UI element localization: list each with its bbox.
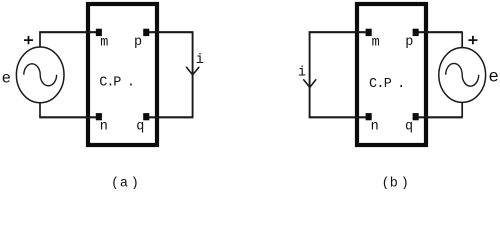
two-port network box U1 (C.P.) bbox=[88, 4, 157, 145]
wire: left corner to terminal m (b) bbox=[309, 31, 367, 33]
wire: E2 top riser bbox=[461, 32, 463, 48]
svg-text:C.P.: C.P. bbox=[369, 77, 405, 92]
wire: terminal p to right corner bbox=[149, 31, 194, 33]
wire: top left to terminal m bbox=[39, 31, 96, 33]
svg-text:p: p bbox=[405, 35, 413, 50]
svg-text:(a): (a) bbox=[111, 177, 139, 190]
terminal m (square, b) bbox=[366, 29, 372, 36]
svg-text:n: n bbox=[371, 120, 379, 135]
terminal q (square) bbox=[143, 113, 149, 120]
polarity plus of E2 bbox=[468, 36, 477, 44]
svg-text:e: e bbox=[488, 67, 499, 87]
current arrowhead i (b) bbox=[304, 80, 316, 88]
polarity plus of E1 bbox=[24, 36, 33, 44]
svg-text:m: m bbox=[372, 35, 380, 50]
svg-text:(b): (b) bbox=[382, 177, 409, 190]
svg-text:n: n bbox=[100, 120, 108, 135]
svg-text:m: m bbox=[100, 35, 108, 50]
wire: E1 top riser bbox=[39, 32, 41, 48]
terminal q (square, b) bbox=[413, 113, 419, 120]
sine wave inside E2 bbox=[446, 63, 479, 86]
svg-text:i: i bbox=[196, 53, 204, 68]
svg-text:p: p bbox=[134, 35, 142, 50]
wire: left vertical branch (b) bbox=[309, 32, 311, 118]
terminal p (square, b) bbox=[413, 29, 419, 36]
svg-text:q: q bbox=[136, 120, 144, 135]
wire: terminal q to E2 bottom corner bbox=[418, 116, 463, 118]
terminal n (square) bbox=[96, 113, 102, 120]
wire: terminal p to E2 top corner bbox=[418, 31, 463, 33]
sine wave inside E1 bbox=[24, 64, 57, 86]
svg-text:C.P.: C.P. bbox=[99, 76, 135, 91]
svg-text:i: i bbox=[298, 66, 306, 81]
wire: left corner to terminal n (b) bbox=[309, 116, 367, 118]
two-port network box U2 (C.P.) bbox=[357, 4, 426, 145]
wire: E2 bottom riser bbox=[461, 103, 463, 118]
wire: right vertical branch bbox=[192, 32, 194, 118]
wire: E1 bottom riser bbox=[39, 102, 41, 117]
svg-text:e: e bbox=[2, 70, 11, 88]
ac source E2 (circle) bbox=[439, 48, 486, 103]
terminal n (square, b) bbox=[366, 113, 372, 120]
terminal p (square) bbox=[143, 29, 149, 36]
current arrowhead i (a) bbox=[187, 67, 199, 75]
wire: terminal q to right corner bbox=[149, 116, 194, 118]
wire: bottom left to terminal n bbox=[39, 116, 96, 118]
terminal m (square) bbox=[96, 29, 102, 36]
ac source E1 (circle) bbox=[16, 47, 64, 103]
svg-text:q: q bbox=[405, 120, 413, 135]
